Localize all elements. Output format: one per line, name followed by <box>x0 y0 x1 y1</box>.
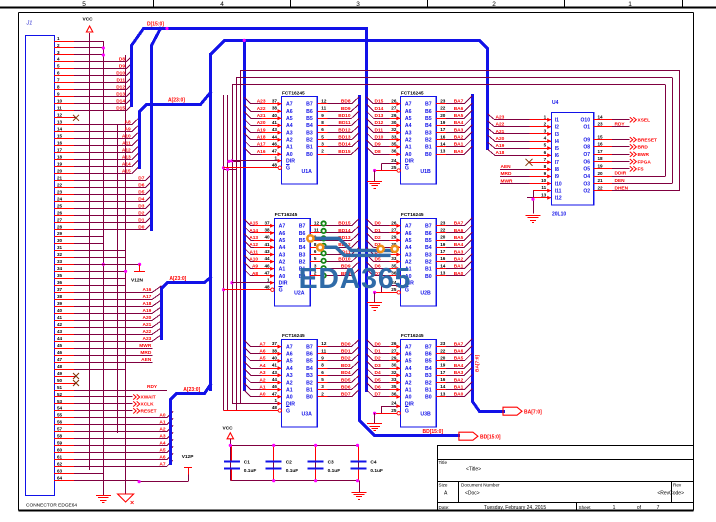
svg-text:12: 12 <box>314 220 320 225</box>
svg-text:39: 39 <box>57 301 63 306</box>
svg-text:A5: A5 <box>286 359 293 365</box>
svg-text:12: 12 <box>57 113 63 118</box>
svg-text:32: 32 <box>391 127 397 132</box>
svg-text:A4: A4 <box>405 123 412 129</box>
svg-text:0.1uF: 0.1uF <box>328 468 341 474</box>
svg-text:46: 46 <box>272 384 278 389</box>
svg-text:B4: B4 <box>425 123 432 129</box>
svg-text:U3B: U3B <box>420 412 431 418</box>
svg-text:A12: A12 <box>249 242 258 248</box>
svg-text:BA1: BA1 <box>454 264 464 270</box>
svg-text:A18: A18 <box>496 150 505 156</box>
svg-text:32: 32 <box>391 370 397 375</box>
svg-text:A14: A14 <box>249 228 258 234</box>
svg-text:A5: A5 <box>405 116 412 122</box>
svg-text:24: 24 <box>391 401 397 406</box>
svg-text:<Doc>: <Doc> <box>465 491 480 497</box>
svg-text:13: 13 <box>57 120 63 125</box>
svg-text:BA2: BA2 <box>454 256 464 262</box>
svg-text:BA2: BA2 <box>454 377 464 383</box>
svg-text:A18: A18 <box>142 301 151 307</box>
svg-text:BD2: BD2 <box>341 356 351 362</box>
svg-text:D13: D13 <box>116 92 125 98</box>
svg-text:A6: A6 <box>405 352 412 358</box>
svg-text:45: 45 <box>57 343 63 348</box>
svg-text:B3: B3 <box>425 252 432 258</box>
svg-text:O1: O1 <box>583 125 590 131</box>
svg-text:D4: D4 <box>375 370 381 376</box>
svg-text:33: 33 <box>391 256 397 261</box>
svg-text:B5: B5 <box>425 238 432 244</box>
svg-text:A22: A22 <box>496 122 505 128</box>
svg-text:6: 6 <box>314 249 317 254</box>
svg-text:16: 16 <box>57 141 63 146</box>
svg-text:A21: A21 <box>257 113 266 119</box>
svg-text:A5: A5 <box>279 238 286 244</box>
svg-text:A5: A5 <box>405 359 412 365</box>
svg-text:20: 20 <box>57 168 63 173</box>
svg-text:47: 47 <box>272 391 278 396</box>
svg-text:A7: A7 <box>159 462 165 468</box>
svg-text:54: 54 <box>57 406 63 411</box>
svg-text:B2: B2 <box>425 138 432 144</box>
svg-text:B7: B7 <box>425 224 432 230</box>
svg-text:Title: Title <box>439 460 448 465</box>
svg-text:33: 33 <box>57 259 63 264</box>
svg-text:BA3: BA3 <box>454 370 464 376</box>
svg-text:A6: A6 <box>286 352 293 358</box>
svg-text:48: 48 <box>264 284 270 289</box>
svg-text:A20: A20 <box>496 136 505 142</box>
svg-text:A13: A13 <box>122 155 131 161</box>
svg-text:A7: A7 <box>405 102 412 108</box>
svg-text:A7: A7 <box>286 102 293 108</box>
svg-text:B5: B5 <box>306 116 313 122</box>
svg-text:40: 40 <box>264 235 270 240</box>
svg-text:A0: A0 <box>286 395 293 401</box>
svg-text:A1: A1 <box>159 420 165 426</box>
svg-text:BD[15:0]: BD[15:0] <box>423 429 444 435</box>
svg-text:I6: I6 <box>555 153 559 159</box>
svg-text:23: 23 <box>440 220 446 225</box>
svg-text:DDIR: DDIR <box>615 171 627 177</box>
svg-text:B1: B1 <box>306 387 313 393</box>
svg-text:I1: I1 <box>555 118 559 124</box>
svg-text:7: 7 <box>57 78 60 83</box>
svg-text:11: 11 <box>321 348 326 353</box>
svg-text:5: 5 <box>321 134 324 139</box>
svg-text:29: 29 <box>57 231 63 236</box>
svg-text:6: 6 <box>544 150 547 155</box>
svg-text:I4: I4 <box>555 139 559 145</box>
svg-text:37: 37 <box>57 287 63 292</box>
svg-text:A17: A17 <box>142 294 151 300</box>
svg-text:29: 29 <box>391 356 397 361</box>
svg-text:Date:: Date: <box>439 505 450 510</box>
svg-text:A1: A1 <box>259 384 265 390</box>
svg-text:14: 14 <box>440 384 446 389</box>
svg-text:19: 19 <box>440 363 446 368</box>
svg-text:35: 35 <box>391 384 397 389</box>
svg-text:A3: A3 <box>405 130 412 136</box>
svg-text:B0: B0 <box>425 274 432 280</box>
svg-text:13: 13 <box>541 192 547 197</box>
svg-text:33: 33 <box>391 134 397 139</box>
svg-text:BA6: BA6 <box>454 106 464 112</box>
svg-text:BA6: BA6 <box>454 228 464 234</box>
svg-text:O5: O5 <box>583 167 590 173</box>
svg-text:B3: B3 <box>306 130 313 136</box>
svg-text:D15: D15 <box>116 106 125 112</box>
svg-text:26: 26 <box>391 99 397 104</box>
svg-text:9: 9 <box>57 92 60 97</box>
svg-text:16: 16 <box>440 256 446 261</box>
svg-text:43: 43 <box>264 249 270 254</box>
svg-text:D5: D5 <box>138 189 144 195</box>
svg-text:D5: D5 <box>375 256 381 262</box>
svg-text:B6: B6 <box>306 352 313 358</box>
svg-text:60: 60 <box>57 448 63 453</box>
svg-text:B5: B5 <box>306 359 313 365</box>
svg-text:BD10: BD10 <box>338 113 351 119</box>
svg-text:37: 37 <box>272 341 278 346</box>
svg-text:A19: A19 <box>142 308 151 314</box>
svg-text:37: 37 <box>264 220 270 225</box>
svg-text:B7: B7 <box>425 102 432 108</box>
svg-text:D12: D12 <box>375 120 384 126</box>
svg-text:AEN: AEN <box>501 164 512 170</box>
svg-text:61: 61 <box>57 455 63 460</box>
svg-text:B6: B6 <box>425 352 432 358</box>
svg-text:D4: D4 <box>138 196 144 202</box>
svg-text:43: 43 <box>272 370 278 375</box>
svg-text:D11: D11 <box>116 78 125 84</box>
svg-text:17: 17 <box>440 127 446 132</box>
svg-text:A1: A1 <box>405 145 412 151</box>
svg-text:14: 14 <box>440 142 446 147</box>
svg-text:DEN: DEN <box>615 178 626 184</box>
svg-text:BD4: BD4 <box>341 370 351 376</box>
svg-text:1: 1 <box>628 1 632 8</box>
svg-text:29: 29 <box>391 113 397 118</box>
svg-text:A0: A0 <box>159 413 165 419</box>
svg-text:9: 9 <box>544 171 547 176</box>
svg-text:9: 9 <box>321 356 324 361</box>
svg-text:3: 3 <box>321 142 324 147</box>
svg-text:A2: A2 <box>405 380 412 386</box>
svg-text:BA6: BA6 <box>454 349 464 355</box>
svg-text:A4: A4 <box>259 363 265 369</box>
svg-text:MWR: MWR <box>501 178 514 184</box>
svg-text:BD10: BD10 <box>338 256 351 262</box>
svg-text:BWR: BWR <box>638 152 650 158</box>
svg-text:8: 8 <box>57 85 60 90</box>
svg-text:I7: I7 <box>555 160 559 166</box>
svg-text:37: 37 <box>272 99 278 104</box>
svg-text:11: 11 <box>541 185 546 190</box>
svg-text:24: 24 <box>391 158 397 163</box>
svg-text:B0: B0 <box>306 152 313 158</box>
svg-text:I8: I8 <box>555 167 559 173</box>
svg-text:BD14: BD14 <box>338 142 351 148</box>
svg-text:A3: A3 <box>286 130 293 136</box>
svg-text:17: 17 <box>440 370 446 375</box>
svg-text:24: 24 <box>57 196 63 201</box>
svg-text:0.1uF: 0.1uF <box>286 468 299 474</box>
svg-text:43: 43 <box>57 329 63 334</box>
svg-text:O9: O9 <box>583 138 590 144</box>
svg-text:B4: B4 <box>425 245 432 251</box>
svg-text:1: 1 <box>274 155 277 160</box>
svg-text:27: 27 <box>391 228 397 233</box>
svg-text:B7: B7 <box>306 102 313 108</box>
svg-text:VCC: VCC <box>223 426 234 432</box>
svg-text:44: 44 <box>57 336 63 341</box>
svg-text:A9: A9 <box>125 127 131 133</box>
svg-text:20: 20 <box>598 171 604 176</box>
svg-text:44: 44 <box>264 256 270 261</box>
svg-text:B3: B3 <box>306 373 313 379</box>
svg-text:B0: B0 <box>306 395 313 401</box>
svg-text:A1: A1 <box>405 387 412 393</box>
svg-text:BA7: BA7 <box>454 221 464 227</box>
svg-text:57: 57 <box>57 427 63 432</box>
svg-text:Tuesday, February 24, 2015: Tuesday, February 24, 2015 <box>484 505 546 511</box>
svg-text:D[15:0]: D[15:0] <box>147 22 164 28</box>
svg-text:A1: A1 <box>279 267 286 273</box>
svg-text:26: 26 <box>391 341 397 346</box>
svg-text:3: 3 <box>321 384 324 389</box>
svg-text:2: 2 <box>492 1 496 8</box>
svg-text:G: G <box>286 166 290 172</box>
svg-text:FCT16245: FCT16245 <box>401 90 424 96</box>
svg-text:A4: A4 <box>159 441 165 447</box>
svg-text:D14: D14 <box>116 99 125 105</box>
svg-text:A5: A5 <box>159 448 165 454</box>
svg-text:6: 6 <box>321 127 324 132</box>
svg-text:A0: A0 <box>279 274 286 280</box>
svg-text:D9: D9 <box>119 64 125 70</box>
svg-text:A15: A15 <box>122 168 131 174</box>
svg-text:BA7: BA7 <box>454 341 464 347</box>
svg-text:26: 26 <box>57 210 63 215</box>
svg-text:34: 34 <box>57 266 63 271</box>
svg-text:32: 32 <box>57 252 63 257</box>
svg-text:3: 3 <box>356 1 360 8</box>
svg-text:47: 47 <box>57 357 63 362</box>
svg-text:13: 13 <box>440 391 446 396</box>
svg-text:17: 17 <box>57 148 63 153</box>
svg-text:B0: B0 <box>425 395 432 401</box>
svg-text:20: 20 <box>440 113 446 118</box>
svg-text:A23: A23 <box>142 336 151 342</box>
svg-text:MRD: MRD <box>140 350 151 356</box>
svg-text:BA7: BA7 <box>454 99 464 105</box>
svg-text:A3: A3 <box>405 373 412 379</box>
svg-text:BA2: BA2 <box>454 135 464 141</box>
svg-text:4: 4 <box>544 136 547 141</box>
svg-text:63: 63 <box>57 469 63 474</box>
svg-text:35: 35 <box>57 273 63 278</box>
svg-text:2: 2 <box>544 122 547 127</box>
svg-text:U1A: U1A <box>302 169 313 175</box>
svg-text:A3: A3 <box>159 434 165 440</box>
svg-text:I12: I12 <box>555 196 562 202</box>
svg-text:8: 8 <box>544 164 547 169</box>
svg-text:B1: B1 <box>306 145 313 151</box>
svg-text:A15: A15 <box>249 221 258 227</box>
svg-text:D12: D12 <box>116 85 125 91</box>
svg-text:56: 56 <box>57 420 63 425</box>
svg-text:18: 18 <box>57 155 63 160</box>
svg-text:D9: D9 <box>375 142 381 148</box>
svg-text:21: 21 <box>57 175 63 180</box>
svg-text:A2: A2 <box>286 380 293 386</box>
svg-text:41: 41 <box>272 120 278 125</box>
svg-text:G: G <box>405 408 409 414</box>
svg-text:B3: B3 <box>299 252 306 258</box>
svg-text:B6: B6 <box>299 231 306 237</box>
svg-text:O7: O7 <box>583 152 590 158</box>
svg-text:G: G <box>286 408 290 414</box>
svg-text:A[23:0]: A[23:0] <box>168 98 185 104</box>
svg-text:B1: B1 <box>425 267 432 273</box>
svg-text:BD6: BD6 <box>341 384 351 390</box>
svg-text:16: 16 <box>440 134 446 139</box>
svg-text:O6: O6 <box>583 159 590 165</box>
svg-text:BA5: BA5 <box>454 113 464 119</box>
svg-text:59: 59 <box>57 441 63 446</box>
svg-text:BD0: BD0 <box>341 341 351 347</box>
svg-text:Rev: Rev <box>673 483 682 488</box>
svg-text:53: 53 <box>57 399 63 404</box>
svg-text:0.1uF: 0.1uF <box>370 468 383 474</box>
svg-text:23: 23 <box>57 189 63 194</box>
svg-text:55: 55 <box>57 413 63 418</box>
svg-text:49: 49 <box>57 371 63 376</box>
svg-text:BD5: BD5 <box>341 377 351 383</box>
svg-text:A22: A22 <box>257 106 266 112</box>
svg-text:22: 22 <box>57 182 63 187</box>
svg-text:A6: A6 <box>405 109 412 115</box>
svg-text:A12: A12 <box>122 148 131 154</box>
svg-text:43: 43 <box>272 127 278 132</box>
svg-text:A9: A9 <box>252 264 258 270</box>
svg-text:5: 5 <box>57 64 60 69</box>
svg-text:A13: A13 <box>249 235 258 241</box>
svg-text:D10: D10 <box>116 71 125 77</box>
svg-text:A11: A11 <box>122 141 131 147</box>
svg-text:4: 4 <box>220 1 224 8</box>
svg-text:D8: D8 <box>375 149 381 155</box>
svg-text:BD[15:0]: BD[15:0] <box>480 435 501 441</box>
svg-text:A2: A2 <box>279 259 286 265</box>
svg-text:6: 6 <box>321 370 324 375</box>
svg-text:BD13: BD13 <box>338 135 351 141</box>
svg-text:A1: A1 <box>286 145 293 151</box>
svg-text:1: 1 <box>613 505 616 511</box>
svg-text:O3: O3 <box>583 181 590 187</box>
svg-text:<Title>: <Title> <box>466 467 481 473</box>
svg-text:22: 22 <box>440 106 446 111</box>
svg-text:G: G <box>405 166 409 172</box>
svg-text:D6: D6 <box>138 182 144 188</box>
svg-text:38: 38 <box>272 348 278 353</box>
svg-text:<RevCode>: <RevCode> <box>657 491 684 497</box>
svg-text:8: 8 <box>321 363 324 368</box>
svg-text:40: 40 <box>57 308 63 313</box>
svg-text:12: 12 <box>321 99 327 104</box>
svg-text:A5: A5 <box>259 356 265 362</box>
svg-text:A3: A3 <box>259 370 265 376</box>
svg-text:D13: D13 <box>375 113 384 119</box>
svg-text:62: 62 <box>57 462 63 467</box>
svg-text:D11: D11 <box>375 127 384 133</box>
svg-text:B7: B7 <box>425 344 432 350</box>
svg-text:RDY: RDY <box>147 384 158 390</box>
svg-text:BD11: BD11 <box>339 120 351 126</box>
svg-text:U2B: U2B <box>420 291 431 297</box>
svg-text:DIR: DIR <box>405 159 414 165</box>
svg-text:B4: B4 <box>299 245 306 251</box>
svg-text:A17: A17 <box>257 142 266 148</box>
svg-text:U3A: U3A <box>302 412 313 418</box>
svg-text:31: 31 <box>57 245 63 250</box>
svg-text:1: 1 <box>544 114 547 119</box>
svg-text:11: 11 <box>57 106 62 111</box>
svg-text:7: 7 <box>657 505 660 511</box>
svg-text:D1: D1 <box>375 349 381 355</box>
svg-text:16: 16 <box>440 377 446 382</box>
svg-text:XSEL: XSEL <box>638 118 651 124</box>
svg-text:38: 38 <box>264 228 270 233</box>
svg-text:52: 52 <box>57 392 63 397</box>
svg-text:A4: A4 <box>405 245 412 251</box>
svg-text:D8: D8 <box>119 57 125 63</box>
svg-text:5: 5 <box>544 143 547 148</box>
svg-text:46: 46 <box>272 142 278 147</box>
svg-text:A21: A21 <box>496 129 505 135</box>
svg-text:D1: D1 <box>375 228 381 234</box>
svg-text:B6: B6 <box>425 231 432 237</box>
svg-text:6: 6 <box>57 71 60 76</box>
svg-text:3: 3 <box>544 129 547 134</box>
svg-text:A23: A23 <box>257 99 266 105</box>
svg-text:A20: A20 <box>142 315 151 321</box>
svg-text:20: 20 <box>440 356 446 361</box>
svg-text:D10: D10 <box>375 135 384 141</box>
svg-text:A6: A6 <box>279 231 286 237</box>
svg-text:5: 5 <box>82 1 86 8</box>
svg-text:A3: A3 <box>279 252 286 258</box>
svg-text:D1: D1 <box>138 217 144 223</box>
svg-text:B1: B1 <box>425 145 432 151</box>
svg-text:B3: B3 <box>425 373 432 379</box>
svg-text:9: 9 <box>321 113 324 118</box>
svg-text:I10: I10 <box>555 181 562 187</box>
svg-text:22: 22 <box>440 228 446 233</box>
svg-text:2: 2 <box>321 149 324 154</box>
svg-text:A7: A7 <box>279 224 286 230</box>
svg-text:BA1: BA1 <box>454 384 464 390</box>
svg-text:40: 40 <box>272 113 278 118</box>
svg-text:41: 41 <box>57 315 63 320</box>
svg-text:0.1uF: 0.1uF <box>244 468 257 474</box>
svg-text:B1: B1 <box>425 387 432 393</box>
svg-text:13: 13 <box>440 271 446 276</box>
svg-text:BD9: BD9 <box>341 106 351 112</box>
svg-text:19: 19 <box>440 242 446 247</box>
